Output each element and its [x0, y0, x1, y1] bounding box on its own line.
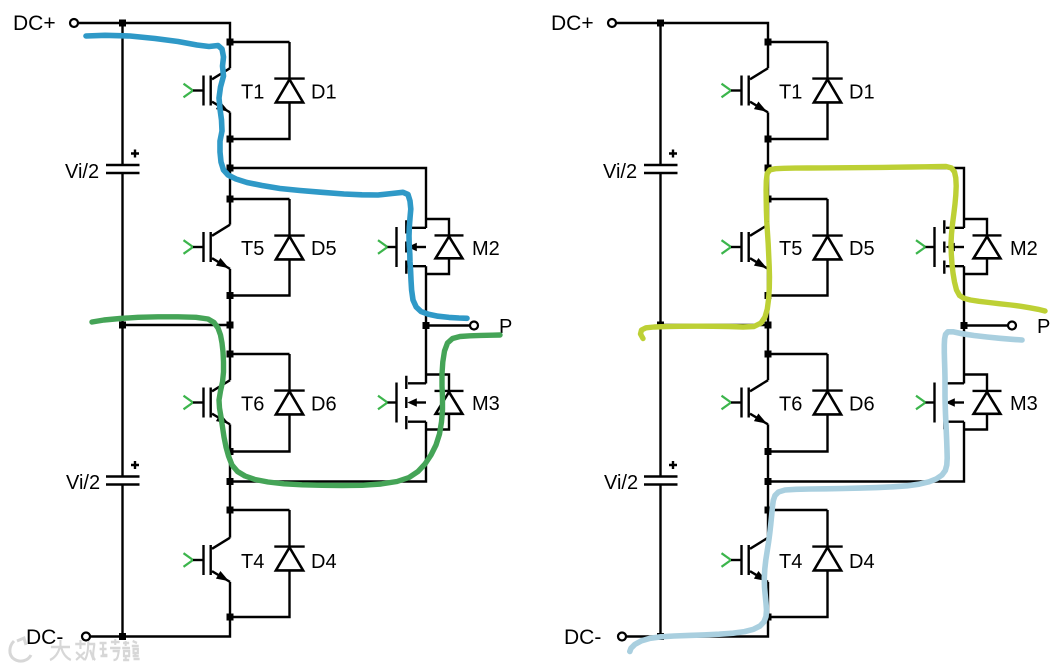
diode D4 — [274, 510, 304, 570]
wire D6 cathode top — [768, 353, 828, 355]
svg-text:T5: T5 — [241, 238, 264, 260]
node DC+ terminal (right) — [608, 19, 616, 27]
svg-text:Vi/2: Vi/2 — [65, 161, 99, 183]
wire T5 emitter — [229, 269, 231, 296]
wire T6 collector — [229, 354, 231, 380]
svg-text:D4: D4 — [849, 551, 875, 573]
diode D6 — [812, 354, 842, 414]
junction rail neutral — [657, 322, 664, 329]
wire M3 source to node B — [768, 422, 964, 482]
transistor T4 (IGBT) — [184, 538, 231, 582]
wire DC- bus — [626, 617, 768, 637]
capacitor C upper Vi/2 — [106, 150, 140, 174]
junction T1/D1 top — [765, 39, 772, 46]
wire D5 anode bottom — [230, 259, 290, 296]
junction rail neutral — [119, 322, 126, 329]
wire T branch mid-upper link — [229, 296, 231, 355]
svg-text:T5: T5 — [779, 238, 802, 260]
junction T4/D4 bottom — [765, 614, 772, 621]
capacitor C upper Vi/2 — [644, 150, 678, 174]
wire T6 emitter — [767, 424, 769, 451]
junction node P — [423, 322, 430, 329]
wire D1 cathode top — [768, 41, 828, 43]
junction T1/D1 top — [227, 39, 234, 46]
wire P stub — [426, 324, 470, 326]
junction output tap on T branch — [227, 322, 234, 329]
wire M3 source to node B — [230, 422, 426, 482]
svg-text:M2: M2 — [472, 238, 500, 260]
wire D4 cathode top — [768, 509, 828, 511]
junction T5/D5 bottom — [765, 292, 772, 299]
junction DC- / rail — [119, 633, 126, 640]
transistor T1 (IGBT) — [722, 68, 769, 112]
capacitor C lower Vi/2 — [644, 461, 678, 485]
wire D4 cathode top — [230, 509, 290, 511]
wire T5 collector — [229, 199, 231, 225]
wire M2 source to P — [425, 266, 427, 325]
svg-text:Vi/2: Vi/2 — [603, 161, 637, 183]
svg-text:D4: D4 — [311, 551, 337, 573]
wire T1 collector — [229, 42, 231, 68]
transistor T5 (IGBT) — [184, 225, 231, 269]
diode D5 — [812, 199, 842, 259]
junction T5/D5 bottom — [227, 292, 234, 299]
wire T5 collector — [767, 199, 769, 225]
junction T4/D4 top — [227, 507, 234, 514]
wire current path green (left, negative half) — [92, 317, 500, 486]
wire T4 collector — [229, 510, 231, 538]
wire current path light-blue (right, negative half) — [630, 332, 1022, 652]
diode D5 — [274, 199, 304, 259]
wire T branch upper link — [229, 139, 231, 199]
junction T6/D6 top — [227, 351, 234, 358]
junction node A — [765, 165, 772, 172]
wire D6 cathode top — [230, 353, 290, 355]
wire T branch mid-lower link — [229, 452, 231, 511]
svg-text:DC-: DC- — [26, 626, 63, 649]
node P terminal — [470, 322, 478, 330]
junction T1/D1 bottom — [227, 136, 234, 143]
wire node A to M2 drain — [768, 168, 964, 228]
svg-text:DC-: DC- — [564, 626, 601, 649]
junction DC- / rail — [657, 633, 664, 640]
junction T6/D6 bottom — [227, 448, 234, 455]
svg-text:D5: D5 — [311, 238, 337, 260]
wire rail upper-mid segment — [659, 173, 661, 325]
junction T5/D5 top — [765, 196, 772, 203]
wire DC+ bus to T1 collector — [78, 23, 230, 42]
wire D5 anode bottom — [768, 259, 828, 296]
transistor T6 (IGBT) — [722, 380, 769, 424]
wire T5 emitter — [767, 269, 769, 296]
diode D1 — [812, 42, 842, 102]
wire current path yellow-green (right, positive half) — [641, 167, 1046, 339]
junction output tap on T branch — [765, 322, 772, 329]
wire D5 cathode top — [768, 198, 828, 200]
transistor M3 (MOSFET) — [378, 375, 464, 430]
junction DC+ / rail — [657, 20, 664, 27]
wire D5 cathode top — [230, 198, 290, 200]
transistor T5 (IGBT) — [722, 225, 769, 269]
wire P to M3 drain — [425, 326, 427, 384]
wire rail lower-mid segment — [659, 325, 661, 477]
svg-text:D1: D1 — [849, 82, 875, 104]
junction node B — [765, 478, 772, 485]
svg-text:D5: D5 — [849, 238, 875, 260]
svg-text:DC+: DC+ — [551, 12, 594, 35]
node DC+ terminal (left) — [70, 19, 78, 27]
wire D6 anode bottom — [230, 414, 290, 452]
junction T6/D6 bottom — [765, 448, 772, 455]
wire rail lower-mid segment — [121, 325, 123, 477]
junction T4/D4 top — [765, 507, 772, 514]
svg-text:DC+: DC+ — [13, 12, 56, 35]
wire neutral tap — [123, 324, 231, 326]
svg-text:D1: D1 — [311, 82, 337, 104]
svg-text:Vi/2: Vi/2 — [66, 472, 100, 494]
svg-text:T6: T6 — [241, 394, 264, 416]
wire T6 emitter — [229, 424, 231, 451]
wire P stub — [964, 324, 1008, 326]
wire DC- bus — [90, 617, 230, 637]
junction DC+ / rail — [119, 20, 126, 27]
svg-text:D6: D6 — [849, 394, 875, 416]
svg-text:M2: M2 — [1010, 238, 1038, 260]
wire node A to M2 drain — [230, 168, 426, 228]
svg-text:T4: T4 — [241, 551, 264, 573]
junction T4/D4 bottom — [227, 614, 234, 621]
wire D1 anode bottom — [768, 102, 828, 139]
diode D6 — [274, 354, 304, 414]
svg-text:T4: T4 — [779, 551, 802, 573]
svg-text:P: P — [1037, 316, 1050, 338]
wire T1 collector — [767, 42, 769, 68]
node DC- terminal (left) — [82, 633, 90, 641]
wire P to M3 drain — [963, 326, 965, 384]
svg-text:D6: D6 — [311, 394, 337, 416]
wire D6 anode bottom — [768, 414, 828, 452]
transistor T4 (IGBT) — [722, 538, 769, 582]
svg-text:M3: M3 — [1010, 393, 1038, 415]
wire rail bottom segment — [659, 485, 661, 637]
wire T branch mid-lower link — [767, 452, 769, 511]
svg-text:M3: M3 — [472, 393, 500, 415]
node P terminal — [1008, 322, 1016, 330]
junction node P — [961, 322, 968, 329]
svg-text:T1: T1 — [241, 82, 264, 104]
svg-text:T6: T6 — [779, 394, 802, 416]
wire current path blue (left, positive half) — [86, 35, 467, 318]
wire T4 emitter — [767, 582, 769, 617]
transistor T6 (IGBT) — [184, 380, 231, 424]
wire T branch upper link — [767, 139, 769, 199]
junction node B — [227, 478, 234, 485]
wire D1 anode bottom — [230, 102, 290, 139]
svg-text:Vi/2: Vi/2 — [604, 472, 638, 494]
wire rail top segment — [659, 23, 661, 165]
wire rail bottom segment — [121, 485, 123, 637]
node DC- terminal (right) — [618, 633, 626, 641]
wire T6 collector — [767, 354, 769, 380]
junction T1/D1 bottom — [765, 136, 772, 143]
wire rail upper-mid segment — [121, 173, 123, 325]
diode D4 — [812, 510, 842, 570]
wire D4 anode bottom — [230, 570, 290, 617]
junction T6/D6 top — [765, 351, 772, 358]
wire T4 collector — [767, 510, 769, 538]
wire rail top segment — [121, 23, 123, 165]
wire DC+ bus to T1 collector — [616, 23, 768, 42]
wire T branch mid-upper link — [767, 296, 769, 355]
wire neutral tap — [661, 324, 769, 326]
wire M2 source to P — [963, 266, 965, 325]
wire T1 emitter — [229, 112, 231, 139]
wire D1 cathode top — [230, 41, 290, 43]
diode D1 — [274, 42, 304, 102]
wire D4 anode bottom — [768, 570, 828, 617]
transistor M2 (MOSFET) — [916, 219, 1002, 274]
capacitor C lower Vi/2 — [106, 461, 140, 485]
wire T4 emitter — [229, 582, 231, 617]
svg-text:T1: T1 — [779, 82, 802, 104]
transistor M3 (MOSFET) — [916, 375, 1002, 430]
junction node A — [227, 165, 234, 172]
transistor M2 (MOSFET) — [378, 219, 464, 274]
junction T5/D5 top — [227, 196, 234, 203]
wire T1 emitter — [767, 112, 769, 139]
transistor T1 (IGBT) — [184, 68, 231, 112]
